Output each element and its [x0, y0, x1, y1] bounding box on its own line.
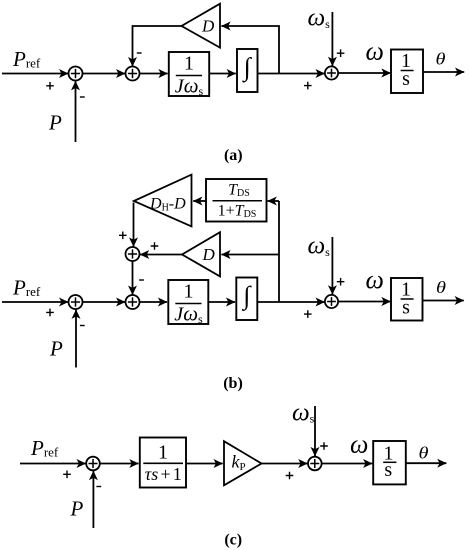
svg-text:Pref: Pref: [12, 276, 41, 300]
svg-text:(b): (b): [223, 375, 243, 392]
svg-text:(c): (c): [224, 532, 242, 549]
svg-text:1: 1: [184, 53, 194, 75]
summing junction S1c: [86, 457, 100, 471]
wire tap into block TDS: [268, 200, 279, 202]
wire S2c to block 1/s (c): [322, 463, 373, 465]
plus sign S4b right input: [151, 242, 159, 250]
wire omega_s input (a): [331, 12, 333, 66]
wire omega_s input (b): [331, 237, 333, 294]
svg-text:TDS: TDS: [228, 182, 250, 200]
svg-text:P: P: [49, 337, 63, 361]
summing junction S4b: [126, 247, 140, 261]
wire feedback tap up and into D (a): [221, 26, 279, 74]
plus sign S3a input: [304, 82, 312, 90]
wire Pref input (c): [20, 463, 86, 465]
svg-text:D: D: [201, 17, 215, 36]
plus sign omega_s (a): [337, 49, 345, 57]
plus sign S3b input: [304, 310, 312, 318]
svg-text:ωs: ωs: [308, 4, 331, 31]
svg-text:s: s: [402, 68, 410, 90]
wire Pref input (b): [2, 301, 68, 303]
label D (a): [201, 17, 215, 36]
svg-text:ω: ω: [366, 265, 384, 294]
wire S3b to block 1/s (b): [338, 301, 391, 303]
plus sign omega_s (c): [320, 442, 328, 450]
minus sign S2a feedback input: [137, 52, 142, 54]
label kP: [232, 452, 246, 474]
svg-text:1: 1: [158, 442, 168, 464]
svg-text:ω: ω: [366, 36, 384, 65]
svg-text:kP: kP: [232, 452, 246, 474]
block 1/s (b): [391, 278, 423, 321]
gain triangle D (a): [182, 4, 221, 48]
wire D output to S2a: [133, 26, 182, 66]
caption (a): [224, 147, 243, 164]
node omega label (b): [366, 265, 384, 294]
node omega label (a): [366, 36, 384, 65]
label DH-D: [149, 196, 186, 214]
wire S1b to S2b: [83, 301, 126, 303]
wire integrator to S3a: [258, 73, 325, 75]
svg-text:1+TDS: 1+TDS: [218, 203, 257, 221]
svg-text:τs+1: τs+1: [145, 464, 182, 484]
block integrator (b): [236, 278, 257, 321]
node omega_s label (a): [308, 4, 331, 31]
label D (b): [202, 245, 216, 264]
plus sign S2c input: [286, 472, 294, 480]
caption (c): [224, 532, 242, 549]
svg-text:∫: ∫: [241, 281, 252, 311]
svg-text:∫: ∫: [242, 52, 253, 82]
block TDS/(1+TDS): [206, 179, 267, 222]
wire integrator to S3b: [258, 301, 325, 303]
summing junction S1b: [69, 295, 83, 309]
wire TDS to triangle DH-D: [193, 200, 206, 202]
wire S4b to S2b: [132, 261, 134, 295]
wire tap into D (b): [221, 254, 279, 256]
wire S2b to block 1/Jws (b): [140, 301, 168, 303]
minus sign P input (a): [80, 96, 85, 98]
summing junction S3b: [325, 295, 338, 308]
svg-text:(a): (a): [224, 147, 243, 164]
node omega_s label (c): [292, 399, 315, 426]
wire kP to S2c: [262, 463, 308, 465]
node P label (c): [70, 497, 84, 521]
wire DH-D output down to S4b: [133, 203, 135, 247]
wire P input (b): [75, 310, 77, 368]
node P label (a): [48, 111, 62, 135]
svg-text:Jωs: Jωs: [174, 302, 203, 327]
summing junction S1a: [69, 67, 83, 81]
summing junction S3a: [325, 66, 338, 79]
plus sign S1a input: [46, 82, 54, 90]
svg-text:ωs: ωs: [292, 399, 315, 426]
minus sign S2b top input: [139, 279, 144, 281]
node Pref label (c): [30, 436, 59, 460]
block 1/s (a): [391, 50, 423, 94]
gain triangle kP: [224, 441, 262, 485]
wire theta output (a): [423, 71, 464, 73]
svg-text:D: D: [202, 245, 216, 264]
block 1/s (c): [373, 441, 406, 484]
plus sign S1b input: [46, 309, 54, 317]
wire Pref input (a): [2, 73, 68, 75]
node theta label (a): [436, 50, 446, 69]
wire S1a to S2a: [83, 73, 126, 75]
node Pref label (a): [12, 47, 41, 71]
block integrator (a): [237, 49, 258, 92]
svg-text:θ: θ: [419, 444, 429, 463]
gain triangle D (b): [182, 232, 220, 276]
node omega label (c): [350, 429, 368, 458]
wire theta output (b): [423, 300, 464, 302]
gain triangle DH-D: [134, 175, 192, 227]
wire feedback tap vertical (b): [278, 201, 280, 302]
svg-text:Pref: Pref: [30, 436, 59, 460]
svg-text:Jωs: Jωs: [175, 74, 204, 99]
plus sign S4b top input: [119, 232, 127, 240]
wire D output to S4b: [140, 254, 182, 256]
node P label (b): [49, 337, 63, 361]
wire 1/Jws to integrator (a): [209, 73, 236, 75]
wire S3a to block 1/s (a): [338, 72, 391, 74]
svg-text:s: s: [402, 297, 410, 319]
wire P input (a): [75, 81, 77, 142]
node theta label (b): [436, 278, 446, 297]
svg-text:1: 1: [184, 281, 194, 303]
svg-text:θ: θ: [436, 50, 446, 69]
summing junction S2c: [308, 457, 322, 471]
svg-text:DH-D: DH-D: [149, 196, 186, 214]
svg-text:P: P: [70, 497, 84, 521]
plus sign omega_s (b): [337, 278, 345, 286]
svg-text:P: P: [48, 111, 62, 135]
caption (b): [223, 375, 243, 392]
wire S2a to block 1/Jws: [140, 73, 168, 75]
node Pref label (b): [12, 276, 41, 300]
block 1/(tau s+1): [140, 438, 186, 488]
node omega_s label (b): [308, 232, 331, 259]
plus sign S1c input: [63, 471, 71, 479]
svg-text:ωs: ωs: [308, 232, 331, 259]
block 1/Jws (b): [168, 280, 208, 326]
wire S1c to block tau: [100, 463, 139, 465]
wire omega_s input (c): [314, 406, 316, 456]
wire P input (c): [92, 471, 94, 528]
wire block tau to kP: [186, 463, 223, 465]
wire 1/Jws to integrator (b): [208, 301, 235, 303]
summing junction S2b: [126, 295, 140, 309]
node theta label (c): [419, 444, 429, 463]
block 1/Jws (a): [169, 52, 209, 98]
svg-text:Pref: Pref: [12, 47, 41, 71]
minus sign P input (c): [96, 486, 101, 488]
svg-text:θ: θ: [436, 278, 446, 297]
summing junction S2a: [126, 67, 140, 81]
svg-text:ω: ω: [350, 429, 368, 458]
minus sign P input (b): [80, 325, 85, 327]
wire theta output (c): [406, 462, 446, 464]
